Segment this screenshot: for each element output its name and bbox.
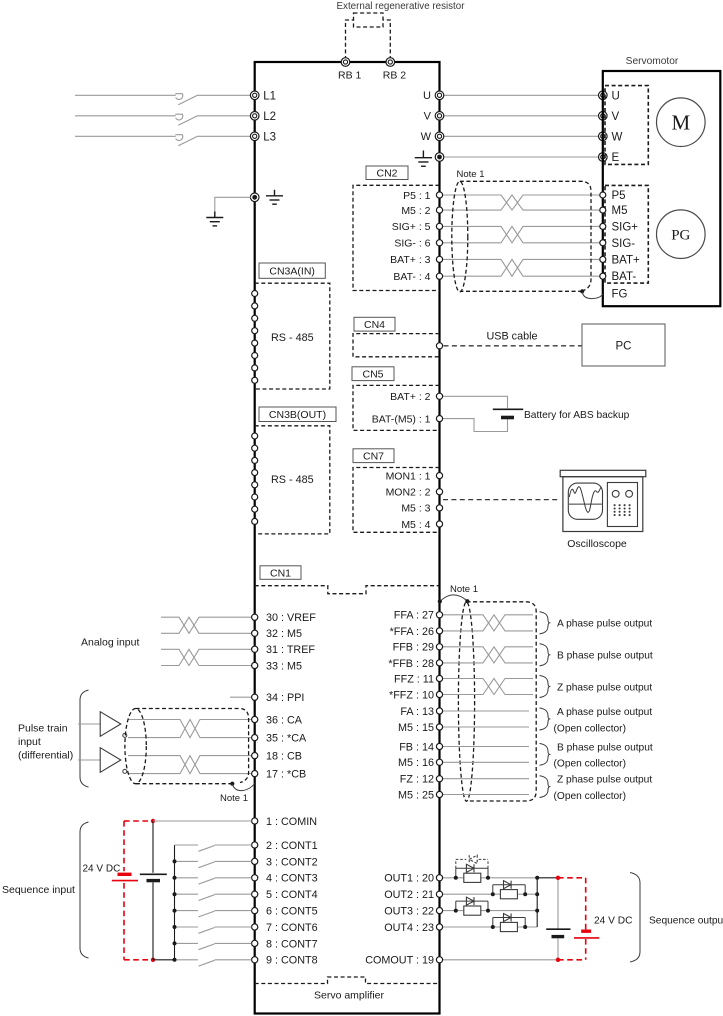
svg-text:A phase pulse output: A phase pulse output	[557, 707, 652, 718]
svg-text:M5 : 15: M5 : 15	[398, 722, 434, 734]
svg-text:*FFB : 28: *FFB : 28	[388, 658, 434, 670]
svg-text:RS - 485: RS - 485	[271, 332, 314, 344]
svg-text:4 : CONT3: 4 : CONT3	[266, 873, 318, 885]
svg-text:24 V DC: 24 V DC	[83, 864, 121, 875]
svg-text:30 : VREF: 30 : VREF	[266, 612, 316, 624]
svg-text:(Open collector): (Open collector)	[554, 723, 626, 734]
svg-text:B phase pulse output: B phase pulse output	[557, 742, 653, 753]
svg-text:PG: PG	[671, 228, 690, 244]
svg-text:L2: L2	[263, 111, 276, 123]
svg-text:3 : CONT2: 3 : CONT2	[266, 856, 318, 868]
svg-text:W: W	[612, 131, 623, 143]
svg-text:M5 : 3: M5 : 3	[401, 503, 430, 515]
svg-text:2 : CONT1: 2 : CONT1	[266, 840, 318, 852]
svg-text:Pulse train: Pulse train	[18, 723, 68, 735]
svg-text:B phase pulse output: B phase pulse output	[557, 651, 653, 662]
svg-text:FA : 13: FA : 13	[400, 706, 434, 718]
svg-text:OUT4 : 23: OUT4 : 23	[384, 922, 434, 934]
svg-text:BAT+ : 3: BAT+ : 3	[390, 254, 431, 266]
svg-text:34 : PPI: 34 : PPI	[266, 692, 304, 704]
svg-text:MON1 : 1: MON1 : 1	[386, 470, 431, 482]
svg-text:8 : CONT7: 8 : CONT7	[266, 938, 318, 950]
svg-text:M5 : 16: M5 : 16	[398, 757, 434, 769]
svg-text:OUT1 : 20: OUT1 : 20	[384, 873, 434, 885]
svg-text:BAT-(M5) : 1: BAT-(M5) : 1	[372, 413, 431, 425]
svg-text:MON2 : 2: MON2 : 2	[386, 487, 431, 499]
svg-text:M5 : 4: M5 : 4	[401, 519, 430, 531]
svg-text:CN2: CN2	[376, 168, 397, 180]
svg-text:FB : 14: FB : 14	[399, 741, 434, 753]
svg-text:PC: PC	[616, 341, 632, 353]
svg-text:BAT+ : 2: BAT+ : 2	[390, 391, 431, 403]
svg-text:OUT3 : 22: OUT3 : 22	[384, 906, 434, 918]
svg-text:Servomotor: Servomotor	[626, 56, 679, 67]
svg-text:W: W	[421, 131, 432, 143]
svg-text:M5 : 2: M5 : 2	[401, 205, 430, 217]
svg-text:9 : CONT8: 9 : CONT8	[266, 955, 318, 967]
svg-text:Analog input: Analog input	[81, 637, 139, 649]
svg-text:(Open collector): (Open collector)	[554, 759, 626, 770]
svg-text:Battery for ABS backup: Battery for ABS backup	[524, 410, 630, 421]
svg-text:36 : CA: 36 : CA	[266, 714, 303, 726]
svg-text:V: V	[424, 111, 432, 123]
svg-text:Z phase pulse output: Z phase pulse output	[557, 775, 652, 786]
svg-text:24 V DC: 24 V DC	[594, 916, 633, 927]
svg-text:U: U	[423, 90, 431, 102]
svg-text:(Open collector): (Open collector)	[554, 791, 626, 802]
svg-text:Oscilloscope: Oscilloscope	[567, 538, 627, 550]
svg-text:18 : CB: 18 : CB	[266, 751, 302, 763]
svg-text:CN3B(OUT): CN3B(OUT)	[269, 409, 326, 421]
svg-text:CN4: CN4	[364, 319, 385, 331]
svg-text:(differential): (differential)	[18, 750, 73, 762]
svg-text:SIG+ : 5: SIG+ : 5	[392, 221, 431, 233]
svg-text:SIG-: SIG-	[612, 238, 636, 250]
svg-text:Note 1: Note 1	[457, 169, 485, 180]
svg-text:Z phase pulse output: Z phase pulse output	[557, 682, 652, 693]
svg-text:Servo amplifier: Servo amplifier	[314, 990, 385, 1002]
svg-text:M5 : 25: M5 : 25	[398, 789, 434, 801]
svg-text:RS - 485: RS - 485	[271, 474, 314, 486]
svg-text:P5 : 1: P5 : 1	[403, 190, 431, 202]
svg-text:L3: L3	[263, 131, 276, 143]
svg-text:RB 2: RB 2	[383, 70, 407, 82]
svg-text:7 : CONT6: 7 : CONT6	[266, 922, 318, 934]
svg-text:CN5: CN5	[362, 368, 383, 380]
svg-text:External regenerative resistor: External regenerative resistor	[337, 1, 466, 12]
svg-text:A phase pulse output: A phase pulse output	[557, 619, 652, 630]
svg-text:FFB : 29: FFB : 29	[393, 642, 434, 654]
svg-text:17 : *CB: 17 : *CB	[266, 769, 306, 781]
svg-text:33 : M5: 33 : M5	[266, 660, 302, 672]
svg-text:31 : TREF: 31 : TREF	[266, 644, 315, 656]
svg-text:1 : COMIN: 1 : COMIN	[266, 816, 317, 828]
svg-text:6 : CONT5: 6 : CONT5	[266, 906, 318, 918]
svg-text:BAT+: BAT+	[612, 254, 641, 266]
svg-text:32 : M5: 32 : M5	[266, 628, 302, 640]
svg-text:*FFZ : 10: *FFZ : 10	[389, 689, 434, 701]
svg-text:M5: M5	[612, 205, 628, 217]
svg-text:Note 1: Note 1	[220, 793, 248, 804]
svg-text:FG: FG	[612, 289, 628, 301]
svg-text:E: E	[612, 152, 620, 164]
svg-text:SIG- : 6: SIG- : 6	[394, 238, 430, 250]
svg-text:CN1: CN1	[270, 567, 291, 579]
svg-text:Sequence input: Sequence input	[2, 884, 75, 896]
svg-text:COMOUT : 19: COMOUT : 19	[365, 955, 434, 967]
svg-text:OUT2 : 21: OUT2 : 21	[384, 889, 434, 901]
svg-text:*FFA : 26: *FFA : 26	[390, 626, 434, 638]
svg-text:M: M	[671, 111, 690, 135]
svg-text:Note 1: Note 1	[450, 584, 478, 595]
svg-text:input: input	[18, 736, 41, 748]
svg-text:CN7: CN7	[363, 450, 384, 462]
svg-text:USB cable: USB cable	[486, 331, 537, 343]
svg-text:U: U	[612, 90, 620, 102]
svg-text:CN3A(IN): CN3A(IN)	[269, 265, 315, 277]
svg-text:5 : CONT4: 5 : CONT4	[266, 889, 318, 901]
svg-text:FFA : 27: FFA : 27	[394, 610, 434, 622]
svg-text:L1: L1	[263, 90, 276, 102]
svg-text:FFZ : 11: FFZ : 11	[394, 673, 434, 685]
svg-text:35 : *CA: 35 : *CA	[266, 733, 307, 745]
svg-text:P5: P5	[612, 190, 626, 202]
svg-text:V: V	[612, 111, 620, 123]
svg-text:RB 1: RB 1	[338, 70, 362, 82]
svg-text:FZ : 12: FZ : 12	[400, 774, 434, 786]
svg-text:SIG+: SIG+	[612, 221, 639, 233]
svg-text:Sequence output: Sequence output	[649, 916, 723, 927]
svg-text:BAT- : 4: BAT- : 4	[393, 271, 430, 283]
svg-text:BAT-: BAT-	[612, 271, 637, 283]
